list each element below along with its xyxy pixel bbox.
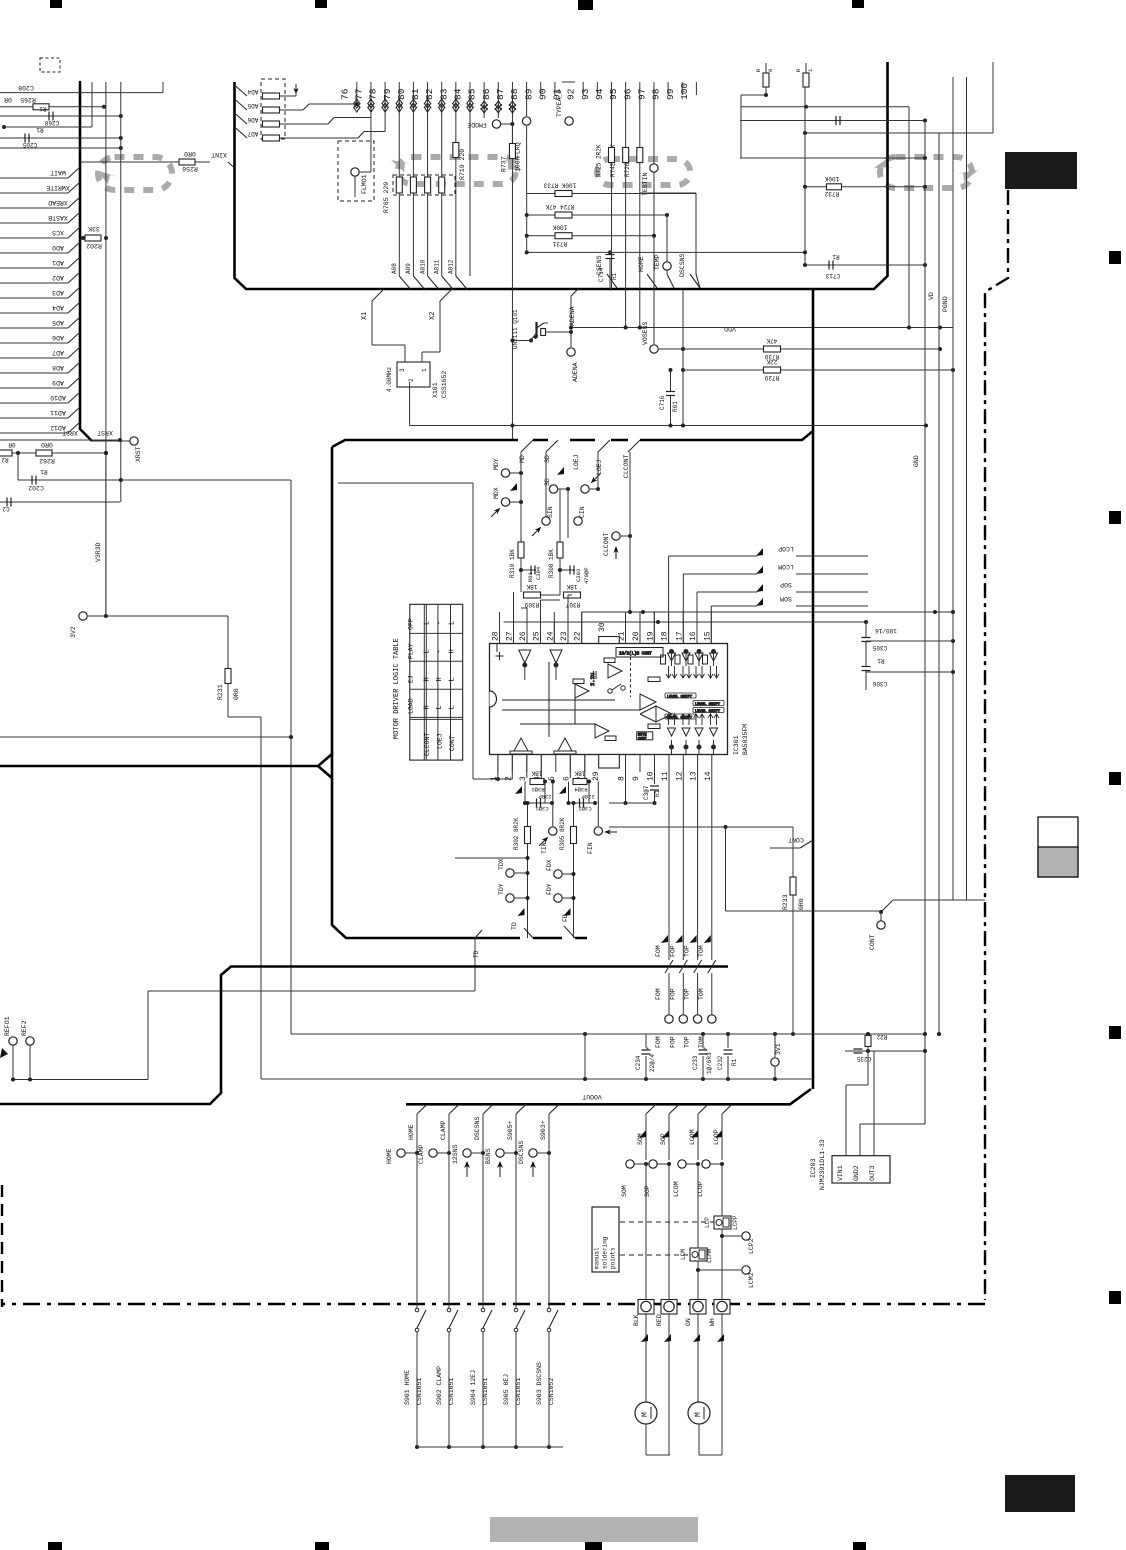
dashed box FLMO1 <box>338 141 374 201</box>
svg-text:220P: 220P <box>581 793 594 800</box>
unit block 2 pin entry FD <box>564 926 575 938</box>
wire ADENA vertical <box>570 296 572 347</box>
svg-text:AD3: AD3 <box>52 289 64 296</box>
resistor R (row AD5) <box>235 99 248 110</box>
wire net R233 vertical <box>792 827 794 1034</box>
svg-text:LCOP: LCOP <box>778 545 794 552</box>
gray route loop B <box>398 157 516 184</box>
wire AD7 row <box>0 357 68 359</box>
svg-text:R2: R2 <box>1 456 9 463</box>
svg-text:VOSENS: VOSENS <box>642 321 649 345</box>
svg-text:DSCSNS: DSCSNS <box>474 1116 481 1140</box>
svg-text:CONT: CONT <box>869 934 876 950</box>
wires pins 15-18 verticals <box>710 612 712 644</box>
svg-text:C304: C304 <box>535 566 542 580</box>
svg-text:R1: R1 <box>877 657 885 664</box>
wire net y827 <box>609 826 793 828</box>
test point SOM <box>626 1160 634 1168</box>
wire AD4 arrow <box>280 95 296 97</box>
svg-text:H: H <box>436 677 444 681</box>
svg-text:TEMP: TEMP <box>654 254 661 270</box>
wire AD1 row <box>0 267 68 269</box>
svg-text:TOM: TOM <box>698 945 705 957</box>
resistor R733 100K <box>527 193 696 195</box>
wire AD3 row <box>0 297 68 299</box>
capacitor C306 R1 <box>862 667 871 671</box>
svg-text:REF2: REF2 <box>21 1020 28 1036</box>
svg-text:FOP: FOP <box>669 945 676 957</box>
wire row y440 <box>0 439 120 441</box>
svg-text:100K R733: 100K R733 <box>543 182 576 189</box>
flag WH <box>717 1334 724 1342</box>
wire net y483 long <box>338 482 473 484</box>
svg-text:R262: R262 <box>39 457 55 464</box>
svg-text:SOM: SOM <box>621 1185 628 1197</box>
svg-text:1BK: 1BK <box>531 770 542 777</box>
svg-text:R202: R202 <box>86 242 102 249</box>
switch S904 contacts <box>482 1153 484 1308</box>
svg-text:CSN1051: CSN1051 <box>515 1378 522 1405</box>
svg-text:CSN1051: CSN1051 <box>482 1378 489 1405</box>
svg-text:1G/2(L)H COMT: 1G/2(L)H COMT <box>619 652 652 657</box>
svg-text:81: 81 <box>410 88 421 100</box>
svg-text:30: 30 <box>598 622 607 632</box>
terminal RED <box>661 1300 677 1315</box>
svg-text:A08: A08 <box>391 263 398 274</box>
svg-text:R231: R231 <box>217 684 224 700</box>
svg-text:NJM2391DL1-33: NJM2391DL1-33 <box>819 1139 826 1190</box>
test point TIN <box>552 782 554 827</box>
svg-text:AD10: AD10 <box>50 394 66 401</box>
dash-dot border right vertical <box>985 190 1008 1300</box>
svg-text:soldering: soldering <box>602 1236 609 1269</box>
svg-text:TOP: TOP <box>684 988 691 1000</box>
resistor R308 18K <box>559 489 561 542</box>
unit block 2 outline top/left <box>0 431 813 778</box>
svg-text:L: L <box>449 621 457 625</box>
svg-text:TDY: TDY <box>498 883 505 895</box>
registration mark top 4 <box>852 0 864 8</box>
svg-text:VD: VD <box>928 292 935 300</box>
svg-text:C205: C205 <box>22 141 37 148</box>
wire LCOP column <box>722 1104 732 1114</box>
svg-text:C713: C713 <box>825 272 840 279</box>
page tab black top right <box>1005 152 1077 189</box>
pin entry HOME <box>647 274 657 288</box>
svg-text:TOM: TOM <box>698 988 705 1000</box>
wire rail y612 above IC301 <box>609 611 953 613</box>
svg-text:R3@4: R3@4 <box>574 786 588 793</box>
svg-text:XCS: XCS <box>52 229 64 236</box>
svg-text:OUT3: OUT3 <box>869 1165 876 1181</box>
svg-text:M: M <box>641 1412 650 1417</box>
page tab black bottom right <box>1005 1475 1075 1512</box>
resistor R310 18K <box>520 507 522 538</box>
wire pin88 below FLRQ <box>526 126 528 194</box>
capacitor C713 row <box>805 264 925 266</box>
svg-text:points: points <box>610 1247 617 1269</box>
wire row <box>0 147 121 149</box>
svg-text:COMT: COMT <box>638 738 647 742</box>
svg-text:93: 93 <box>580 88 591 100</box>
svg-text:0R0: 0R0 <box>41 441 53 448</box>
svg-text:LEVEL SHIFT: LEVEL SHIFT <box>667 695 693 699</box>
IC301 pin 29 tab <box>599 755 620 769</box>
svg-text:LCM: LCM <box>680 1249 687 1260</box>
thick bus VOOUT <box>406 1089 811 1104</box>
svg-text:R765 220: R765 220 <box>383 182 390 213</box>
svg-text:SD: SD <box>544 455 551 463</box>
resistor R1 top <box>765 63 767 73</box>
wire vertical x638 <box>639 289 641 328</box>
svg-text:R309: R309 <box>524 601 539 608</box>
svg-text:SD: SD <box>544 478 551 486</box>
svg-text:PGND: PGND <box>942 296 949 312</box>
svg-text:94: 94 <box>594 88 605 100</box>
registration mark bottom 1 <box>48 1542 62 1550</box>
svg-text:XRST: XRST <box>97 429 113 436</box>
wire stack row4 <box>527 251 805 253</box>
svg-text:C716: C716 <box>659 395 666 410</box>
test point FDY <box>554 894 562 902</box>
svg-text:R22: R22 <box>876 1033 887 1040</box>
terminal WH <box>714 1300 730 1315</box>
svg-text:XRST: XRST <box>135 446 142 462</box>
IC U0 left block edge <box>80 81 92 441</box>
dashed box R765 bank <box>393 175 455 195</box>
svg-text:FDX: FDX <box>546 859 553 871</box>
svg-text:TOP: TOP <box>684 945 691 957</box>
svg-text:CLCONT: CLCONT <box>603 532 610 556</box>
wire net y991 <box>148 990 475 992</box>
wire rail y672 <box>866 671 953 673</box>
svg-text:GND2: GND2 <box>853 1165 860 1181</box>
svg-text:AD4: AD4 <box>52 304 64 311</box>
wire net y737 <box>0 736 291 738</box>
svg-text:1BK: 1BK <box>566 583 577 590</box>
switch S904 column <box>483 1104 493 1114</box>
switch S902 contacts <box>448 1153 450 1308</box>
resistor R732 100K <box>805 186 925 188</box>
IC IC203 NJM2391DL1-33 <box>832 1156 890 1183</box>
crystal X101 CSS1652 <box>371 301 373 345</box>
capacitor C307 R1 (pin 10) <box>654 755 656 785</box>
svg-text:12SNS: 12SNS <box>452 1144 459 1164</box>
svg-text:TIN: TIN <box>541 842 548 854</box>
wire row y502 <box>0 501 120 503</box>
wire corner x909 <box>908 107 910 328</box>
svg-text:C268: C268 <box>44 119 59 126</box>
wire rail y370 <box>683 369 953 371</box>
test point 12SNS <box>463 1149 471 1157</box>
resistor R231 <box>227 616 229 668</box>
pin entry X1 <box>372 289 384 301</box>
svg-text:X1: X1 <box>361 312 369 320</box>
svg-text:R308 1BK: R308 1BK <box>548 549 555 578</box>
svg-text:97: 97 <box>636 89 647 100</box>
svg-text:AD8: AD8 <box>52 364 64 371</box>
wire TEMP vertical <box>666 215 668 262</box>
capacitor C234 22R/4 <box>645 1034 647 1048</box>
wire pin87 FMODE net to MD <box>511 158 513 440</box>
resistor R202 <box>85 235 101 241</box>
flag pin6 net <box>559 786 566 794</box>
test point TOP <box>693 1015 701 1023</box>
svg-text:TYPEA_D: TYPEA_D <box>556 90 563 117</box>
test point FOM <box>665 1015 673 1023</box>
dashed wire LCM <box>620 1254 690 1256</box>
wire XREAD row <box>0 207 68 209</box>
svg-text:R725 2R2K: R725 2R2K <box>596 144 603 177</box>
svg-text:VIN1: VIN1 <box>837 1165 844 1181</box>
svg-text:XREAD: XREAD <box>48 199 68 206</box>
svg-text:89: 89 <box>523 88 534 100</box>
svg-text:AD7: AD7 <box>247 130 258 137</box>
resistor R729 22K <box>764 367 781 373</box>
wire vertical V3R3D <box>105 453 107 616</box>
test point LCOP <box>702 1160 710 1168</box>
wire vertical x92 <box>91 82 93 127</box>
IC U1 main outline <box>235 62 888 289</box>
flag SD <box>557 467 564 475</box>
wire switch common y1447 <box>417 1446 563 1448</box>
wire row y803 right <box>609 802 655 804</box>
pin entry CSENS <box>607 274 617 288</box>
svg-text:FOM: FOM <box>655 1036 662 1048</box>
test point LCM2 <box>742 1266 750 1274</box>
svg-text:TD: TD <box>473 950 480 958</box>
test point REF2 <box>26 1037 34 1045</box>
svg-text:R310 1BK: R310 1BK <box>509 549 516 578</box>
wire AD5 to pin76 <box>280 109 303 111</box>
svg-text:2: 2 <box>408 378 415 382</box>
svg-text:C2: C2 <box>2 505 10 512</box>
svg-text:C233: C233 <box>692 1055 699 1070</box>
resistor R262 row <box>0 452 106 454</box>
test point CLAMP <box>429 1149 437 1157</box>
wire AD9 row <box>0 387 68 389</box>
svg-text:SOP: SOP <box>780 581 792 588</box>
svg-text:TD: TD <box>511 922 518 930</box>
svg-text:CLAMP: CLAMP <box>440 1120 447 1140</box>
flag pin3 net <box>515 786 522 794</box>
wire corner <box>162 82 164 93</box>
test point BSNS <box>496 1149 504 1157</box>
wire rail y426 <box>410 425 926 427</box>
svg-text:29: 29 <box>592 771 601 781</box>
unit block 2 pin entry MD <box>521 440 533 452</box>
svg-text:1@/6R3: 1@/6R3 <box>706 1052 713 1074</box>
svg-text:XINT: XINT <box>211 151 227 158</box>
wire AD7 to pin78 <box>280 137 358 139</box>
svg-text:R724 47K: R724 47K <box>545 203 574 210</box>
wire vertical x805 <box>804 87 806 265</box>
svg-text:MDX: MDX <box>493 487 500 499</box>
svg-text:BLK: BLK <box>633 1314 640 1326</box>
switch S903 column <box>549 1104 559 1114</box>
wire LOEJ net <box>597 452 599 489</box>
svg-text:9: 9 <box>632 776 641 781</box>
resistor R737 100K <box>509 144 515 159</box>
registration mark top 3 <box>578 0 593 10</box>
flag GN <box>693 1334 700 1342</box>
test point XRST <box>130 437 138 445</box>
svg-text:-: - <box>436 621 444 625</box>
svg-text:100: 100 <box>679 83 690 100</box>
wire rail y133 <box>805 132 993 134</box>
dash-dot border bottom horizontal <box>2 1303 985 1305</box>
legend box <box>1038 817 1078 877</box>
box manual soldering points <box>592 1207 619 1272</box>
resistor R1 top2 <box>805 63 807 73</box>
wire rail y120 with capacitor <box>740 120 925 122</box>
svg-text:R732: R732 <box>824 190 839 197</box>
thick net VDD vertical <box>812 289 815 1089</box>
svg-text:C232: C232 <box>717 1055 724 1070</box>
wire pin76 junction <box>355 102 359 106</box>
IC301 interior circuitry <box>496 644 725 755</box>
svg-text:220P: 220P <box>538 793 551 800</box>
svg-text:FMODE: FMODE <box>467 121 487 128</box>
wire x993 up <box>992 62 994 133</box>
svg-text:CONT: CONT <box>788 836 804 843</box>
svg-text:R01: R01 <box>527 571 534 582</box>
capacitor C205 <box>0 137 121 139</box>
resistor R256 XINT <box>80 161 210 163</box>
capacitor C302 220P <box>568 782 570 804</box>
svg-text:C303: C303 <box>575 569 582 582</box>
switch S902 column <box>449 1104 459 1114</box>
test point LCOM <box>678 1160 686 1168</box>
svg-text:V3R3D: V3R3D <box>95 542 102 562</box>
wire rail y158 <box>740 157 925 159</box>
svg-text:AD2: AD2 <box>52 274 64 281</box>
svg-text:98: 98 <box>651 88 662 100</box>
wire AD11 row <box>0 417 68 419</box>
wire rail y349 <box>683 348 940 350</box>
svg-text:LOEJ: LOEJ <box>437 733 444 749</box>
registration mark bottom 2 <box>315 1542 329 1550</box>
pin entry X2 <box>440 289 452 301</box>
wire MD net <box>520 452 522 592</box>
test point SD <box>549 485 557 493</box>
svg-text:ADENA: ADENA <box>572 362 579 382</box>
resistor R730 47K <box>764 346 781 352</box>
test point CIN <box>574 517 582 525</box>
svg-text:S902 CLAMP: S902 CLAMP <box>436 1366 443 1405</box>
svg-text:L: L <box>424 649 432 653</box>
wire SOM column <box>646 1104 656 1114</box>
svg-text:CIN: CIN <box>579 506 586 518</box>
terminal BLK <box>638 1300 654 1315</box>
switch S905 column <box>516 1104 526 1114</box>
wire rail y106 <box>741 106 909 108</box>
svg-text:C235: C235 <box>856 1055 871 1062</box>
net GND <box>924 121 926 1125</box>
svg-text:LCMM: LCMM <box>706 1248 713 1263</box>
wire LCOM row <box>682 574 684 612</box>
svg-text:77: 77 <box>353 89 364 100</box>
svg-text:AD6: AD6 <box>247 116 258 123</box>
svg-text:R1: R1 <box>654 789 661 797</box>
svg-text:BSNS: BSNS <box>485 1148 492 1164</box>
resistor R731 100K <box>527 235 654 237</box>
wire Q101 base <box>512 340 531 342</box>
wire R231 to bus <box>227 684 229 717</box>
wire AD6 to pin77 <box>280 123 328 125</box>
svg-text:LCPP: LCPP <box>732 1215 739 1230</box>
capacitor C304 R01 <box>520 558 522 592</box>
switch S901 column <box>417 1104 427 1114</box>
edge tick 3 <box>1109 772 1121 785</box>
svg-text:R01: R01 <box>672 401 679 412</box>
resistor R724 47K <box>527 214 667 216</box>
capacitor C716 R01 <box>670 370 672 391</box>
resistor bank R765 220 <box>396 177 402 193</box>
svg-text:0R0: 0R0 <box>184 150 196 157</box>
terminal GN <box>690 1300 706 1315</box>
svg-text:95: 95 <box>608 88 619 100</box>
test point VOSENS <box>653 172 655 344</box>
wire LCOP row <box>668 556 670 612</box>
node XRST row <box>92 440 130 442</box>
wire AD0 row <box>0 252 68 254</box>
svg-text:CLCONT: CLCONT <box>623 454 630 478</box>
svg-text:80: 80 <box>396 88 407 100</box>
svg-text:DSCSNS: DSCSNS <box>518 1140 525 1164</box>
edge tick 2 <box>1109 511 1121 524</box>
svg-text:88: 88 <box>509 88 520 100</box>
wire motor M1 loop <box>645 1424 647 1455</box>
capacitor C232 R1 <box>727 1034 729 1048</box>
test point REFO1 <box>9 1037 17 1045</box>
wire rail y622 <box>504 621 866 623</box>
svg-text:0R: 0R <box>8 441 16 448</box>
wire row y1051 <box>845 1050 925 1052</box>
resistor R (row AD4) <box>235 85 248 96</box>
svg-text:TESTIN: TESTIN <box>642 172 649 196</box>
svg-text:H: H <box>424 677 432 681</box>
registration mark bottom 4 <box>853 1542 866 1550</box>
svg-text:BA5835FM: BA5835FM <box>742 724 749 755</box>
wires pins 21-27 up <box>625 612 627 644</box>
svg-text:LCP2: LCP2 <box>748 1238 755 1254</box>
svg-text:S905+: S905+ <box>507 1120 514 1140</box>
test point MDY <box>501 469 509 477</box>
svg-text:C3@2: C3@2 <box>578 805 591 812</box>
test point TESTIN <box>650 164 658 172</box>
resistor R (row AD6) <box>235 113 248 124</box>
wire stub x741 <box>740 95 742 158</box>
wire SD net <box>545 452 547 517</box>
svg-text:CLAMP: CLAMP <box>418 1144 425 1164</box>
svg-text:AD9: AD9 <box>52 379 64 386</box>
test point FDX <box>554 870 562 878</box>
wire TD vertical to net <box>474 938 476 991</box>
svg-text:LEVEL SHIFT: LEVEL SHIFT <box>695 703 721 707</box>
svg-text:FIN: FIN <box>587 842 594 854</box>
svg-text:78: 78 <box>368 88 379 100</box>
capacitor C268 <box>0 115 121 117</box>
wire stack left bus <box>526 194 528 253</box>
switch S901 contacts <box>416 1153 418 1308</box>
svg-text:EJ: EJ <box>408 675 415 683</box>
test point DSCSNS <box>529 1149 537 1157</box>
connector LCPP <box>714 1216 731 1229</box>
wire net y480 long vertical <box>290 480 292 1034</box>
svg-text:R1: R1 <box>611 272 618 280</box>
svg-text:WAIT: WAIT <box>50 169 66 176</box>
